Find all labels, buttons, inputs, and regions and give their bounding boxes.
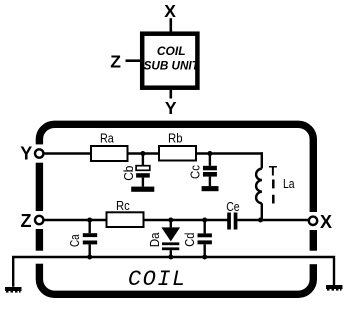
node Y label bbox=[20, 143, 32, 163]
ground (Cb) bbox=[131, 187, 154, 192]
wire bbox=[261, 152, 263, 168]
svg-text:Ce: Ce bbox=[226, 200, 239, 214]
ground (Cc) bbox=[202, 186, 219, 191]
capacitor Cc bbox=[189, 154, 217, 187]
wire bbox=[44, 152, 91, 154]
wire bbox=[170, 18, 173, 32]
svg-text:Cc: Cc bbox=[189, 165, 203, 179]
wire bbox=[44, 219, 107, 221]
svg-text:Cb: Cb bbox=[122, 166, 136, 181]
node Z label bbox=[21, 211, 32, 231]
capacitor Ca bbox=[68, 220, 97, 257]
enclosure border bbox=[34, 124, 319, 294]
node junction bbox=[168, 218, 173, 223]
node junction (rail) bbox=[87, 255, 92, 260]
COIL caption bbox=[128, 267, 187, 292]
node junction bbox=[140, 151, 145, 156]
wire bbox=[144, 219, 229, 221]
COIL SUB UNIT block U1 bbox=[142, 34, 199, 88]
svg-text:Ra: Ra bbox=[100, 131, 114, 145]
inductor La bbox=[256, 169, 295, 204]
varactor diode Da bbox=[148, 220, 180, 257]
svg-text:Ca: Ca bbox=[68, 234, 82, 247]
node junction bbox=[202, 218, 207, 223]
node Z (top block) bbox=[110, 52, 121, 72]
node junction bbox=[207, 151, 212, 156]
wire bbox=[126, 59, 141, 62]
svg-text:Da: Da bbox=[148, 232, 162, 247]
svg-text:Z: Z bbox=[110, 52, 121, 72]
node Y (top block) bbox=[165, 98, 177, 118]
svg-text:T: T bbox=[269, 164, 278, 179]
node junction bbox=[87, 218, 92, 223]
svg-text:Rc: Rc bbox=[116, 199, 130, 213]
svg-text:Y: Y bbox=[165, 98, 177, 118]
resistor Rb bbox=[159, 131, 196, 160]
ground rail bbox=[13, 257, 334, 287]
node junction bbox=[258, 218, 263, 223]
capacitor Ce bbox=[226, 200, 239, 230]
svg-text:COIL: COIL bbox=[128, 267, 187, 292]
wire bbox=[196, 152, 263, 154]
wire bbox=[170, 90, 173, 99]
capacitor Cd bbox=[183, 220, 212, 257]
svg-text:Rb: Rb bbox=[168, 131, 183, 145]
svg-text:X: X bbox=[320, 212, 332, 232]
svg-text:La: La bbox=[283, 177, 295, 191]
svg-text:COIL: COIL bbox=[157, 44, 186, 58]
node X (top block terminal label) bbox=[164, 1, 176, 21]
svg-text:Cd: Cd bbox=[183, 233, 197, 247]
resistor Rc bbox=[107, 199, 144, 227]
terminal X bbox=[309, 217, 317, 225]
terminal Y bbox=[35, 149, 43, 157]
resistor Ra bbox=[91, 131, 128, 161]
svg-text:SUB UNIT: SUB UNIT bbox=[144, 59, 200, 72]
svg-text:Z: Z bbox=[21, 211, 32, 231]
wire bbox=[128, 152, 160, 154]
node junction (rail) bbox=[168, 255, 173, 260]
wire bbox=[261, 203, 263, 220]
capacitor Cb bbox=[122, 154, 150, 187]
tuning core T bbox=[269, 164, 278, 204]
ground (right) bbox=[326, 285, 343, 291]
node junction (rail) bbox=[202, 255, 207, 260]
terminal Z bbox=[35, 216, 43, 224]
node X label bbox=[320, 212, 332, 232]
ground (left) bbox=[5, 287, 22, 293]
svg-text:Y: Y bbox=[20, 143, 32, 163]
wire bbox=[237, 219, 309, 221]
